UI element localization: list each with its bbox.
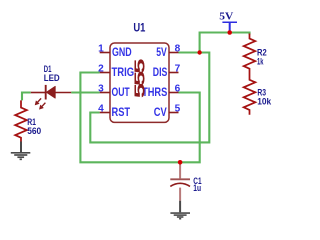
svg-text:1k: 1k	[257, 56, 264, 67]
svg-text:6: 6	[175, 83, 181, 94]
svg-text:5V: 5V	[156, 47, 167, 59]
svg-text:10k: 10k	[257, 96, 272, 107]
svg-text:GND: GND	[112, 47, 132, 59]
svg-text:5: 5	[175, 103, 181, 114]
svg-text:560: 560	[27, 126, 41, 137]
svg-text:DIS: DIS	[153, 67, 168, 79]
svg-text:5V: 5V	[219, 10, 233, 22]
svg-text:7: 7	[175, 63, 181, 74]
svg-text:RST: RST	[112, 107, 131, 119]
svg-text:4: 4	[98, 103, 104, 114]
svg-text:8: 8	[175, 43, 181, 54]
svg-text:1: 1	[98, 43, 104, 54]
svg-text:LED: LED	[44, 73, 60, 84]
svg-text:1u: 1u	[193, 183, 201, 194]
svg-text:CV: CV	[154, 107, 167, 119]
svg-text:OUT: OUT	[112, 87, 130, 99]
svg-text:2: 2	[98, 63, 104, 74]
svg-text:U1: U1	[133, 20, 145, 34]
svg-text:3: 3	[98, 83, 104, 94]
svg-text:5: 5	[131, 83, 148, 98]
